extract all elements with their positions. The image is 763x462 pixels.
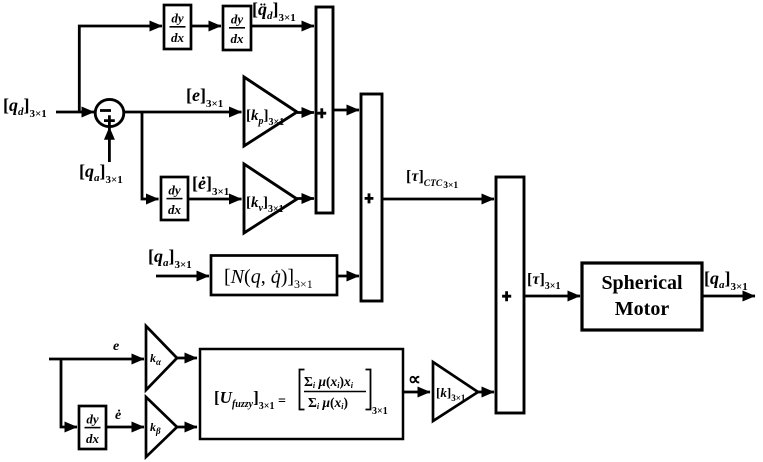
wire branch down to middle dy/dx (142, 112, 159, 199)
svg-text:dy: dy (86, 412, 99, 427)
wire junction to Kp (124, 111, 242, 114)
gain Kp triangle (244, 77, 297, 146)
wire qd input (56, 111, 94, 114)
wire qa into junction (108, 127, 111, 162)
svg-text:∝: ∝ (408, 369, 421, 389)
wire k_alpha to fuzzy block (177, 357, 197, 360)
svg-text:dy: dy (231, 12, 244, 27)
summing block SUM2 (361, 94, 382, 301)
svg-text:Spherical: Spherical (601, 272, 683, 294)
gain K triangle (433, 362, 478, 421)
svg-text:Motor: Motor (615, 298, 670, 320)
label [edot]3x1 (192, 173, 229, 198)
wire sum2 to sum3 (382, 198, 494, 201)
wire branch down to bottom dy/dx (61, 359, 77, 427)
gain Kv triangle (244, 164, 297, 233)
block dy/dx middle (161, 177, 188, 220)
wire dy/dx1 to dy/dx2 (191, 25, 221, 28)
wire branch up to first dy/dx (79, 26, 162, 112)
wire Kp to sum1 (297, 111, 314, 114)
gain k_beta triangle (146, 397, 177, 457)
label [qdd_d]3x1 (252, 0, 296, 24)
wire Kv to sum1 (297, 197, 314, 200)
svg-text:Σi μ(xi)xi: Σi μ(xi)xi (304, 374, 354, 390)
block dy/dx bottom (79, 406, 106, 449)
wire fuzzy to K gain (403, 391, 430, 394)
wire dy/dx2 to sum1 (251, 25, 314, 28)
summing junction S1 (95, 99, 124, 126)
svg-text:dx: dx (171, 30, 185, 45)
svg-text:ė: ė (115, 408, 121, 423)
summing block SUM1 (316, 7, 333, 213)
block dy/dx top first (164, 5, 191, 49)
wire N to sum2 (337, 275, 359, 278)
summing block SUM3 (496, 177, 524, 413)
block N(q,qdot) (211, 256, 337, 296)
block Spherical Motor (582, 263, 702, 330)
svg-text:dx: dx (86, 431, 100, 446)
svg-text:dx: dx (168, 202, 182, 217)
wire sum3 to motor (524, 295, 580, 298)
svg-text:3×1: 3×1 (372, 406, 388, 417)
gain k_alpha triangle (146, 326, 177, 390)
wire motor output (702, 295, 755, 298)
svg-text:dy: dy (168, 183, 181, 198)
wire k_beta to fuzzy block (177, 426, 197, 429)
wire dy/dx bottom to k_beta (106, 426, 144, 429)
wire dy/dx middle to Kv (188, 198, 242, 201)
wire sum1 to sum2 (333, 109, 359, 112)
svg-text:dx: dx (231, 31, 245, 46)
wire e input (49, 358, 144, 361)
svg-text:dy: dy (171, 11, 184, 26)
wire qa to N block (156, 275, 209, 278)
wire K to sum3 (478, 391, 494, 394)
svg-text:e: e (113, 339, 119, 354)
block dy/dx top second (223, 6, 251, 50)
block fuzzy controller (200, 349, 403, 439)
